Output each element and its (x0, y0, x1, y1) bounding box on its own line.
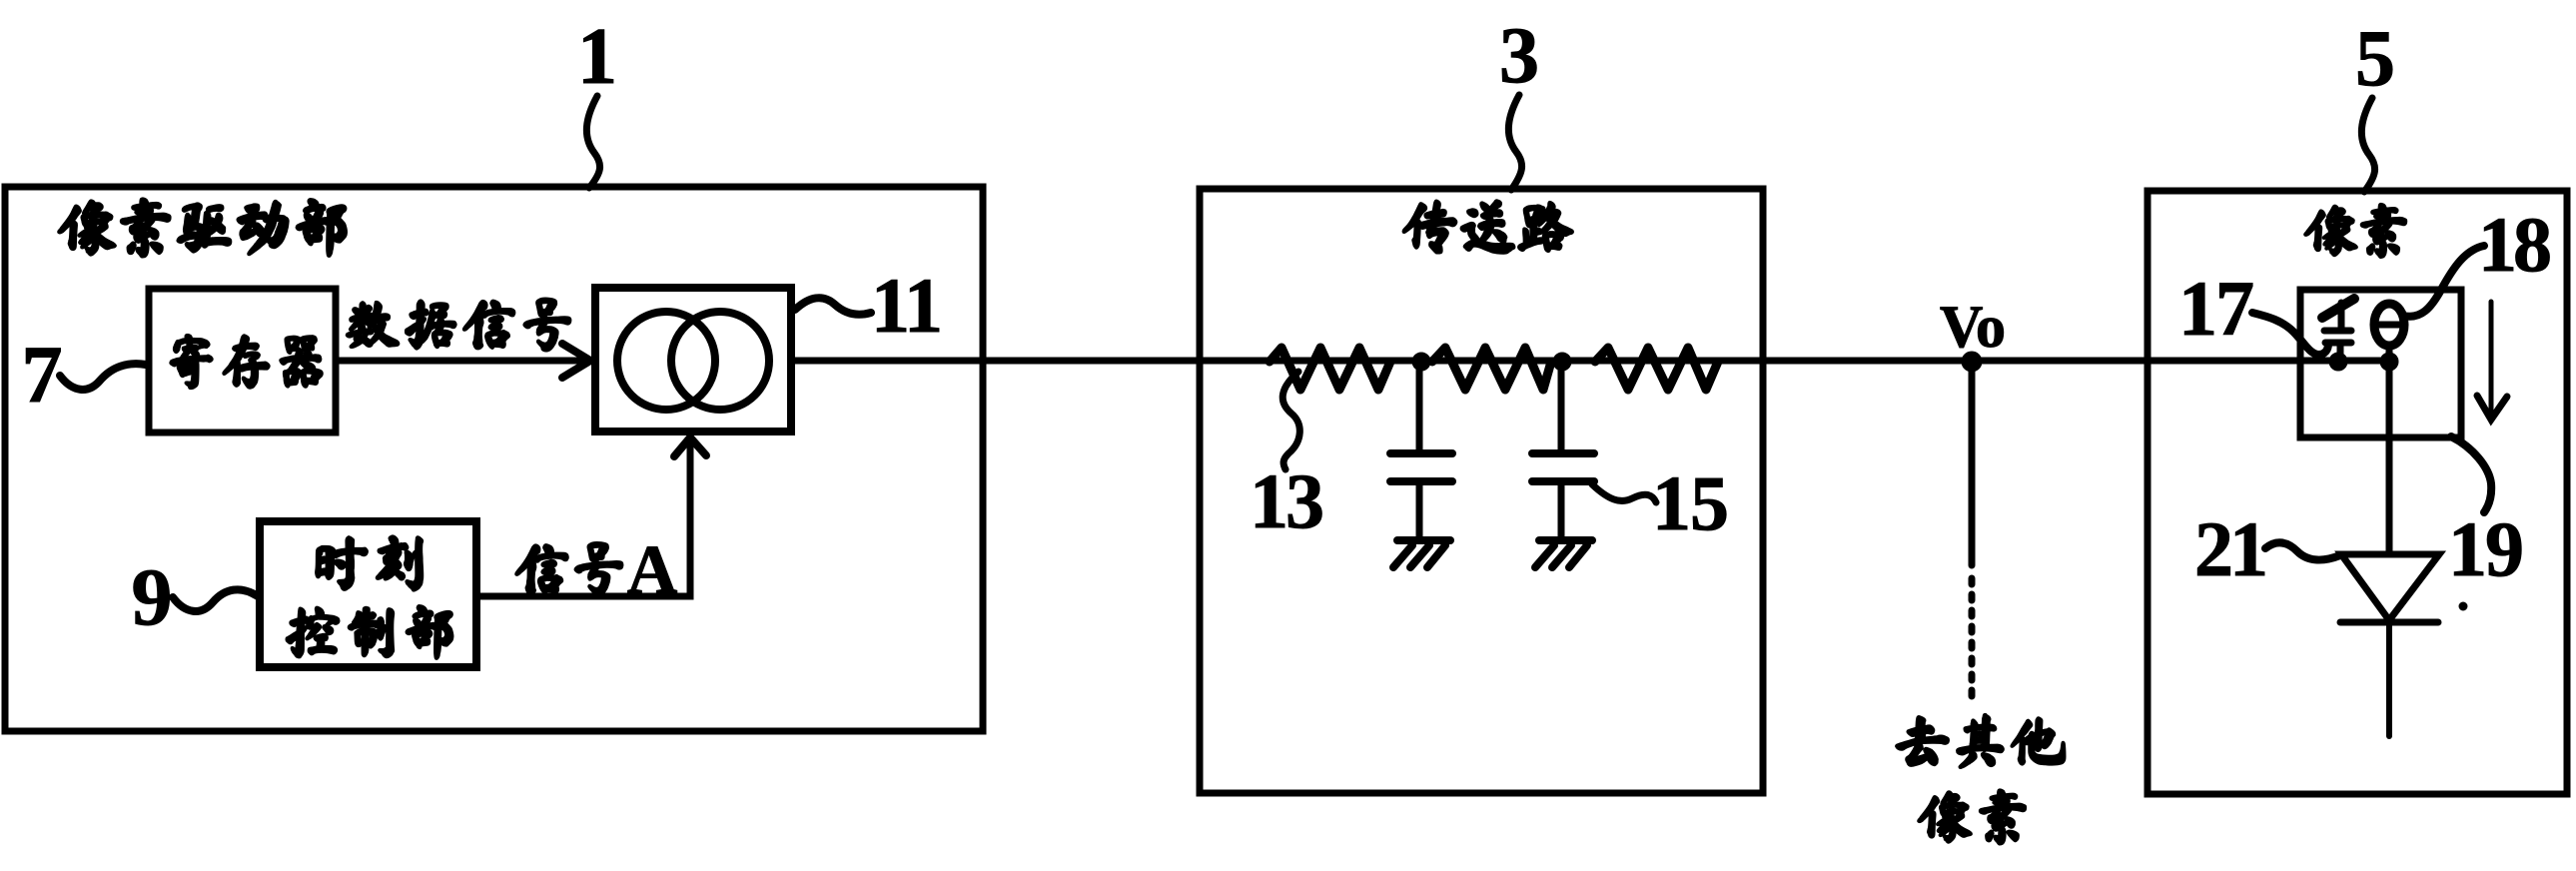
capacitor C2 lower lead (1558, 481, 1565, 539)
node Vo junction dot (1962, 352, 1982, 372)
switch symbol 17: diagonal stroke (2322, 299, 2354, 318)
title text 传送路 (1404, 201, 1572, 253)
inductor zigzag section 3 (1595, 348, 1718, 390)
LED cathode bar (2340, 619, 2438, 626)
LED diode 21: triangle (2341, 554, 2439, 620)
title text 像素驱动部 (59, 199, 346, 256)
svg-text:18: 18 (2478, 201, 2552, 288)
signal A text 信号 (516, 543, 621, 595)
timing control box (时刻控制部) (260, 521, 476, 667)
svg-text:5: 5 (2355, 15, 2395, 103)
block box 1: pixel drive section (5, 187, 983, 731)
leader squiggle for label 3 (1508, 95, 1521, 190)
leader squiggle for label 17 (2252, 313, 2328, 355)
svg-text:15: 15 (1652, 459, 1729, 546)
wire: register to current source with arrowhead (336, 358, 585, 365)
junction node dot 1 (1412, 353, 1430, 371)
main output wire (791, 358, 2390, 365)
junction node dot 2 (1553, 353, 1571, 371)
capacitor symbol 18: ellipse with bar (2374, 304, 2404, 346)
leader squiggle for label 15 (1592, 484, 1656, 502)
switch symbol stem (2338, 303, 2345, 331)
ground symbol 2 (1539, 536, 1592, 544)
capacitor C1 lead (1416, 362, 1423, 450)
text 像素 (bottom) (1919, 790, 2025, 843)
register box (寄存器) (149, 289, 336, 433)
text 去其他 (1897, 715, 2064, 767)
current direction arrow (2489, 302, 2494, 415)
leader squiggle for label 21 (2265, 542, 2340, 559)
capacitor C1 plates (1390, 449, 1452, 457)
junction dot at capacitor (2380, 353, 2398, 371)
svg-text:17: 17 (2178, 265, 2254, 352)
ground symbol 1 (1397, 536, 1450, 544)
wire: pixel cell to LED (2386, 362, 2393, 554)
svg-text:3: 3 (1499, 12, 1539, 100)
dotted continuation to other pixels (1969, 578, 1976, 705)
timing text line1 时刻 (317, 536, 422, 589)
switch symbol bar 1 (2324, 328, 2351, 335)
data signal text 数据信号 (348, 299, 570, 350)
leader squiggle for label 9 (173, 589, 258, 611)
svg-text:21: 21 (2194, 505, 2268, 592)
svg-text:11: 11 (871, 262, 943, 349)
capacitor C2 plates (1532, 449, 1594, 457)
current source circles (617, 312, 715, 410)
leader squiggle for label 11 (795, 298, 871, 314)
LED lower lead (2386, 622, 2392, 736)
capacitor C1 lower lead (1416, 481, 1423, 539)
capacitor C2 (15) lead (1558, 362, 1565, 450)
switch symbol lower stem (2337, 343, 2344, 361)
wire stub down from Vo (1969, 362, 1976, 565)
svg-text:Vo: Vo (1940, 294, 2006, 360)
leader squiggle for label 18 (2403, 246, 2484, 317)
block box 5: pixel (2147, 191, 2567, 794)
wire: timing control to current source with up arrow (478, 440, 690, 596)
timing text line2 控制部 (287, 606, 451, 658)
title text 像素 (box 5) (2305, 205, 2405, 257)
block box 3: transmission path (1200, 189, 1763, 793)
current source box 11 (595, 288, 791, 432)
junction dot at switch (2329, 353, 2347, 371)
svg-text:9: 9 (132, 551, 173, 642)
register text 寄存器 (171, 336, 322, 388)
leader squiggle for label 1 (586, 96, 599, 188)
leader squiggle for label 7 (60, 364, 146, 390)
ink speck (2459, 602, 2467, 610)
leader squiggle for label 13 (1283, 372, 1299, 469)
leader squiggle for label 19 (2451, 436, 2491, 512)
pixel cell box (2300, 290, 2461, 437)
leader squiggle for label 5 (2361, 98, 2374, 192)
svg-text:1: 1 (577, 13, 617, 101)
inductor 13 zigzag section 1 (1270, 348, 1390, 390)
switch symbol bar 2 (2325, 340, 2351, 347)
inductor zigzag section 2 (1432, 348, 1551, 390)
svg-text:19: 19 (2448, 505, 2524, 592)
